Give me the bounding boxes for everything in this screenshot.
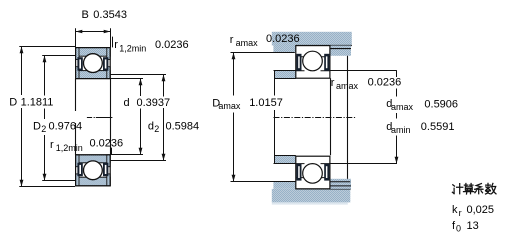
shaft shoulder face line [274, 71, 276, 164]
label calculation factors (Chinese, hand-drawn) [452, 183, 496, 194]
svg-text:0.9764: 0.9764 [49, 121, 83, 133]
svg-text:2: 2 [154, 124, 159, 134]
svg-text:r: r [331, 77, 335, 89]
svg-text:0.3543: 0.3543 [93, 9, 127, 21]
svg-text:r: r [114, 39, 118, 51]
svg-text:amax: amax [236, 38, 259, 48]
leader r bottom [111, 148, 113, 155]
svg-text:amax: amax [218, 101, 241, 111]
svg-text:0.0236: 0.0236 [266, 33, 300, 45]
svg-text:0.3937: 0.3937 [137, 97, 171, 109]
housing bore line top [296, 45, 352, 47]
shaft shoulder block top [275, 71, 296, 79]
svg-text:amax: amax [336, 81, 359, 91]
svg-text:0.0236: 0.0236 [90, 137, 124, 149]
dim d line [140, 79, 142, 155]
char suan [464, 184, 474, 195]
bearing section top [76, 48, 111, 79]
svg-text:13: 13 [467, 220, 479, 232]
svg-text:d: d [148, 121, 154, 133]
svg-text:0.0236: 0.0236 [368, 77, 402, 89]
svg-text:B: B [82, 9, 89, 21]
dim d2 arrows [162, 75, 166, 82]
svg-text:k: k [452, 204, 458, 216]
dim D2 arrows [43, 56, 47, 63]
dim damax extension lines [331, 71, 398, 164]
dim B line [76, 31, 111, 33]
dim D line [21, 47, 23, 187]
dim d arrows [139, 79, 143, 86]
svg-text:0.5906: 0.5906 [424, 98, 458, 110]
dim Damax line [233, 53, 235, 182]
centerline right [274, 117, 356, 119]
bearing section bottom [76, 155, 111, 186]
dim D2 extension lines [42, 56, 75, 181]
char ji [452, 184, 462, 194]
svg-text:d: d [124, 97, 130, 109]
svg-text:1,2min: 1,2min [56, 143, 83, 153]
bearing bore silhouette lines [76, 79, 111, 155]
dim D extension lines [19, 47, 75, 187]
housing bore line bottom [296, 188, 351, 190]
dim d extension lines [111, 79, 144, 155]
svg-text:1,2min: 1,2min [119, 43, 146, 53]
centerline [87, 117, 113, 119]
shaft shoulder block bottom [275, 155, 296, 164]
bearing section top (right view) [296, 46, 330, 79]
dim d2 line [163, 75, 165, 161]
bearing face silhouette through bore [330, 78, 332, 155]
svg-text:0.5984: 0.5984 [166, 121, 200, 133]
abutment ring right edge [347, 56, 349, 179]
dim B extension lines [76, 28, 111, 47]
dim Damax extension lines [231, 53, 297, 182]
dim B arrows [76, 30, 83, 34]
housing shoulder bottom-left [273, 181, 296, 189]
svg-text:r: r [50, 139, 54, 151]
housing bottom band [272, 189, 351, 203]
svg-text:0,025: 0,025 [467, 204, 495, 216]
svg-text:1.0157: 1.0157 [249, 97, 283, 109]
svg-text:D: D [9, 97, 17, 109]
svg-text:amax: amax [391, 102, 414, 112]
housing top band [272, 32, 352, 46]
char xi [475, 184, 483, 194]
svg-text:amin: amin [391, 125, 411, 135]
dim damax line [396, 71, 398, 164]
svg-text:D: D [33, 121, 41, 133]
leader r top [112, 37, 114, 48]
dim Damax arrows [232, 53, 236, 60]
svg-text:r: r [459, 208, 462, 218]
svg-text:1.1811: 1.1811 [21, 97, 54, 109]
bearing section bottom (right view) [296, 156, 330, 189]
dim D arrows [20, 47, 24, 54]
dim d2 extension lines [111, 75, 167, 161]
char shu [486, 183, 497, 194]
housing shoulder top-right and ring section [330, 46, 351, 56]
housing shoulder bottom-right and ring section [330, 179, 351, 189]
housing shoulder top-left [273, 46, 295, 53]
svg-text:0: 0 [456, 224, 461, 234]
svg-text:r: r [230, 34, 234, 46]
svg-text:2: 2 [41, 124, 46, 134]
svg-text:0.5591: 0.5591 [421, 121, 455, 133]
dim damax arrow [395, 157, 399, 164]
svg-text:0.0236: 0.0236 [155, 39, 189, 51]
dim D2 line [44, 56, 46, 181]
